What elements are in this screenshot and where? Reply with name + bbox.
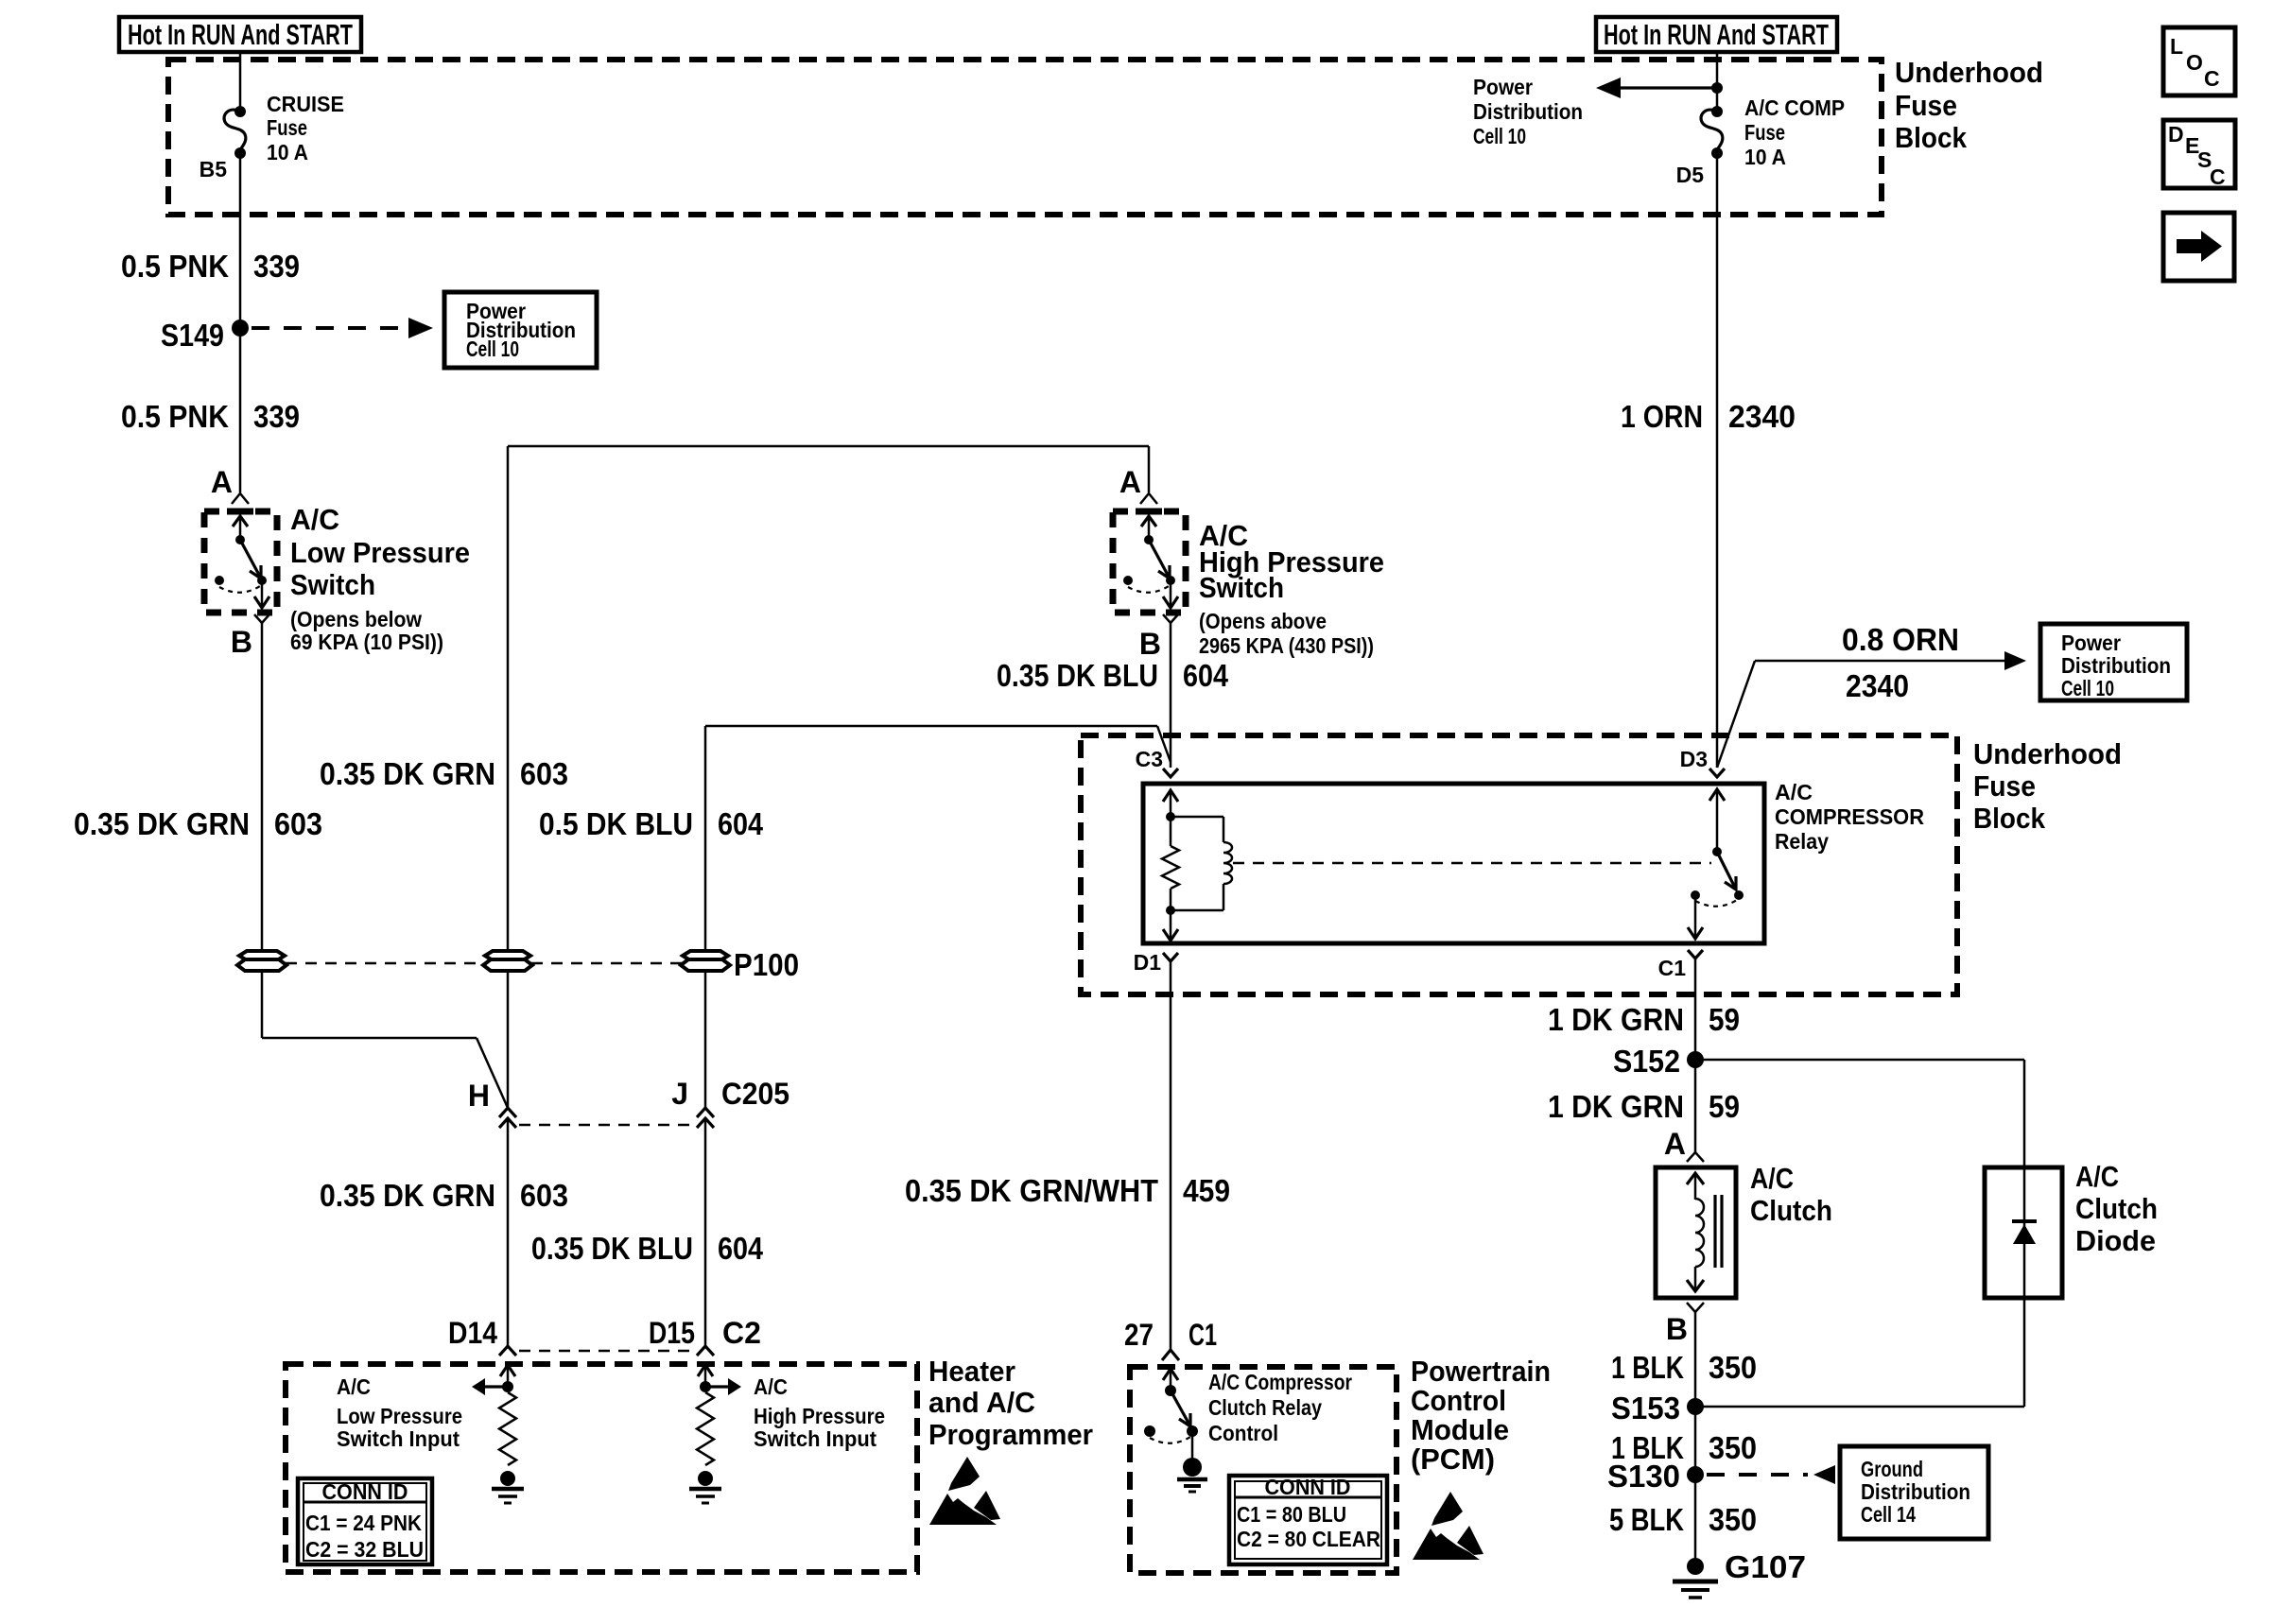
svg-text:2340: 2340 <box>1846 668 1909 703</box>
wire: relay C1 down to A/C clutch (1 DK GRN 59) <box>1694 959 1697 1152</box>
LP switch pin A connector chevron <box>232 493 249 504</box>
svg-text:603: 603 <box>520 1178 568 1213</box>
pin D15 connector chevron <box>697 1346 714 1356</box>
svg-text:A/C COMP: A/C COMP <box>1744 95 1845 120</box>
wire: J down to D15/C2 (0.35 DK BLU 604) <box>704 1118 707 1346</box>
pass-through grommet P100 dashed link line <box>286 962 484 965</box>
pin 27 connector chevron <box>1162 1350 1179 1360</box>
svg-text:B: B <box>1666 1312 1688 1346</box>
svg-text:Clutch: Clutch <box>1750 1194 1832 1227</box>
diode symbol <box>2012 1219 2037 1223</box>
PCM driver switch arm <box>1171 1391 1189 1425</box>
svg-text:Clutch Relay: Clutch Relay <box>1208 1395 1322 1420</box>
svg-text:D1: D1 <box>1134 950 1162 975</box>
svg-text:(Opens above: (Opens above <box>1199 609 1327 633</box>
svg-text:0.35 DK BLU: 0.35 DK BLU <box>531 1231 693 1266</box>
LP switch pivot dot <box>235 535 245 544</box>
svg-text:C: C <box>2210 164 2226 189</box>
pin C3 connector chevron <box>1163 769 1178 777</box>
svg-text:0.8 ORN: 0.8 ORN <box>1842 622 1959 657</box>
reference box Power Distribution Cell 10 (left) <box>444 292 597 368</box>
svg-text:C3: C3 <box>1136 747 1163 771</box>
svg-text:Programmer: Programmer <box>928 1418 1093 1451</box>
svg-text:339: 339 <box>253 399 300 434</box>
svg-text:Switch: Switch <box>1199 571 1284 604</box>
svg-text:C2 = 80 CLEAR: C2 = 80 CLEAR <box>1237 1527 1380 1551</box>
svg-text:Powertrain: Powertrain <box>1411 1355 1551 1388</box>
svg-text:1 DK GRN: 1 DK GRN <box>1548 1089 1684 1124</box>
svg-text:L: L <box>2170 34 2183 59</box>
programmer LP pull-up resistor <box>499 1392 516 1465</box>
svg-text:Switch Input: Switch Input <box>754 1426 876 1451</box>
svg-text:Block: Block <box>1973 802 2046 835</box>
svg-text:Control: Control <box>1411 1384 1506 1417</box>
svg-text:1 DK GRN: 1 DK GRN <box>1548 1002 1684 1037</box>
wire: jog right toward H pin <box>262 1037 477 1040</box>
PCM driver arrow up <box>1170 1371 1172 1389</box>
LP switch moving contact arrow (up) <box>239 517 242 538</box>
svg-text:C2: C2 <box>722 1316 761 1350</box>
svg-text:H: H <box>468 1079 490 1113</box>
pin D1 connector chevron <box>1163 953 1178 961</box>
svg-text:C1 = 80 BLU: C1 = 80 BLU <box>1237 1502 1346 1527</box>
svg-text:Ground: Ground <box>1861 1457 1923 1481</box>
LP switch contact dots <box>257 576 267 585</box>
svg-text:Hot In RUN And START: Hot In RUN And START <box>1604 18 1829 51</box>
svg-text:Relay: Relay <box>1775 829 1829 854</box>
svg-text:B5: B5 <box>200 157 228 181</box>
svg-text:(Opens below: (Opens below <box>290 607 422 631</box>
wire: 603 branch horizontal at top <box>508 445 1149 448</box>
programmer HP input junction dot <box>700 1381 711 1392</box>
svg-text:D5: D5 <box>1676 163 1705 187</box>
svg-text:350: 350 <box>1709 1350 1757 1385</box>
dashed reference arrow to Ground Distribution <box>1707 1473 1808 1477</box>
wire through diode box <box>2023 1167 2026 1298</box>
programmer LP internal ground <box>500 1471 515 1486</box>
svg-text:604: 604 <box>718 1231 764 1266</box>
svg-text:C: C <box>2204 66 2220 91</box>
svg-text:COMPRESSOR: COMPRESSOR <box>1775 804 1924 829</box>
ground G107 symbol <box>1687 1558 1704 1575</box>
svg-text:69 KPA (10 PSI)): 69 KPA (10 PSI)) <box>290 630 443 654</box>
A/C High Pressure Switch dashed box <box>1113 511 1186 613</box>
relay suppression resistor <box>1170 817 1172 846</box>
splice S130 junction dot <box>1687 1466 1704 1483</box>
svg-text:A/C: A/C <box>1775 780 1813 804</box>
relay actuation dashed line <box>1233 862 1711 865</box>
svg-text:0.35 DK GRN: 0.35 DK GRN <box>74 806 250 841</box>
svg-text:Underhood: Underhood <box>1973 737 2122 770</box>
power feed box "Hot In RUN And START" (right) <box>1596 17 1837 52</box>
svg-text:CRUISE: CRUISE <box>267 92 344 116</box>
svg-text:339: 339 <box>253 249 300 284</box>
svg-text:0.35 DK GRN/WHT: 0.35 DK GRN/WHT <box>905 1173 1158 1208</box>
A/C COMPRESSOR Relay solid box <box>1143 784 1764 943</box>
HP switch output arrow down <box>1170 582 1172 606</box>
svg-text:Module: Module <box>1411 1413 1509 1446</box>
svg-text:Cell 10: Cell 10 <box>1473 124 1526 148</box>
LP switch throw dashed arc <box>219 586 260 593</box>
svg-text:Switch: Switch <box>290 568 375 601</box>
HP switch pin B connector chevron <box>1163 614 1178 623</box>
relay switch contact dots <box>1734 890 1744 900</box>
clutch coil bumps <box>1695 1199 1704 1267</box>
wire: relay D1 down to PCM pin 27 (0.35 DK GRN/WHT 459) <box>1170 961 1172 1350</box>
wire: 604 vertical branch down to J <box>704 726 707 1108</box>
svg-text:C1: C1 <box>1189 1318 1217 1352</box>
svg-text:604: 604 <box>1183 658 1229 693</box>
relay coil output arrow down to D1 <box>1170 910 1172 939</box>
svg-text:10 A: 10 A <box>267 140 308 164</box>
svg-text:Underhood: Underhood <box>1895 56 2043 89</box>
relay coil bottom junction dot <box>1166 906 1175 915</box>
svg-text:G107: G107 <box>1725 1549 1806 1584</box>
svg-text:Fuse: Fuse <box>1895 89 1957 122</box>
svg-text:C2 = 32 BLU: C2 = 32 BLU <box>305 1537 424 1562</box>
svg-text:J: J <box>671 1077 688 1111</box>
svg-text:Heater: Heater <box>928 1355 1015 1388</box>
svg-text:0.35 DK GRN: 0.35 DK GRN <box>320 756 495 791</box>
wire: LP switch B down (0.35 DK GRN 603) <box>261 623 264 1038</box>
svg-text:Block: Block <box>1895 121 1968 154</box>
wire: clutch B down to G107 (1 BLK 350) <box>1694 1312 1697 1566</box>
svg-text:0.5 PNK: 0.5 PNK <box>121 249 229 284</box>
ESD sensitivity symbol (programmer) <box>929 1457 1000 1525</box>
LOC legend box <box>2163 27 2235 95</box>
svg-text:Control: Control <box>1208 1421 1278 1445</box>
svg-text:S130: S130 <box>1607 1459 1680 1494</box>
svg-text:Low Pressure: Low Pressure <box>337 1404 462 1428</box>
ESD sensitivity symbol (PCM) <box>1413 1492 1484 1560</box>
svg-text:A: A <box>1119 465 1141 499</box>
PCM driver throw dashed arc <box>1150 1437 1190 1443</box>
svg-text:A/C: A/C <box>754 1374 788 1399</box>
svg-text:0.35 DK GRN: 0.35 DK GRN <box>320 1178 495 1213</box>
relay switch arm <box>1717 852 1735 888</box>
svg-text:59: 59 <box>1709 1089 1740 1124</box>
svg-text:5 BLK: 5 BLK <box>1609 1502 1684 1537</box>
relay coil input arrow up <box>1170 792 1172 817</box>
svg-text:350: 350 <box>1709 1502 1757 1537</box>
underhood fuse block (relay) dashed outline <box>1081 735 1957 994</box>
svg-text:P100: P100 <box>734 947 799 982</box>
splice S149 junction dot <box>232 320 249 337</box>
svg-text:S153: S153 <box>1611 1391 1680 1425</box>
svg-text:S149: S149 <box>161 318 224 353</box>
svg-text:10 A: 10 A <box>1744 145 1786 169</box>
HP switch pin A connector chevron <box>1140 493 1157 504</box>
svg-text:1 BLK: 1 BLK <box>1611 1350 1684 1385</box>
clutch plate bars <box>1713 1195 1716 1268</box>
svg-text:0.5 DK BLU: 0.5 DK BLU <box>539 806 693 841</box>
svg-text:Low Pressure: Low Pressure <box>290 536 470 569</box>
svg-text:S152: S152 <box>1613 1044 1680 1079</box>
svg-text:A/C: A/C <box>2075 1160 2119 1193</box>
P100 grommet symbol on 604 wire <box>681 951 730 971</box>
LP switch arm with arrowhead <box>240 540 260 577</box>
svg-text:Diode: Diode <box>2075 1224 2156 1257</box>
Heater and A/C Programmer dashed box <box>286 1364 917 1572</box>
svg-text:and A/C: and A/C <box>928 1386 1035 1419</box>
HP switch throw dashed arc <box>1128 586 1169 593</box>
programmer HP input right arrow <box>705 1385 733 1388</box>
svg-text:Fuse: Fuse <box>1973 769 2036 803</box>
svg-text:1 ORN: 1 ORN <box>1621 399 1703 434</box>
HP switch contact dots <box>1166 576 1175 585</box>
PCM driver contact dots <box>1187 1425 1198 1437</box>
A/C Clutch box <box>1656 1167 1736 1298</box>
wire: H down to D14 (0.35 DK GRN 603) <box>507 1118 510 1346</box>
svg-text:59: 59 <box>1709 1002 1740 1037</box>
arrow to Power Distribution Cell 10 (pointing left) <box>1619 86 1717 89</box>
Powertrain Control Module dashed box <box>1130 1367 1397 1573</box>
wire: S152 branch to clutch diode <box>1695 1059 2024 1062</box>
wire: S153 branch to clutch diode <box>1695 1406 2024 1408</box>
LP switch output arrow down <box>261 582 264 606</box>
HP switch top terminal bar <box>1136 509 1162 515</box>
wire: HP switch B down to relay C3 (0.35 DK BLU 604) <box>1170 623 1172 768</box>
HP switch arm with arrowhead <box>1149 540 1169 577</box>
svg-text:C1 = 24 PNK: C1 = 24 PNK <box>305 1511 422 1535</box>
A/C Low Pressure Switch dashed box <box>204 511 277 613</box>
svg-text:Cell 10: Cell 10 <box>2061 676 2114 700</box>
CONN ID table (PCM) <box>1229 1476 1387 1564</box>
relay coil top junction dot <box>1166 812 1175 821</box>
svg-text:Clutch: Clutch <box>2075 1192 2158 1225</box>
svg-text:CONN ID: CONN ID <box>1265 1475 1351 1499</box>
HP switch moving contact arrow (up) <box>1148 517 1151 538</box>
wire: 604 diagonal join at C3 <box>1157 726 1171 762</box>
P100 grommet symbol on 603 branch wire <box>483 951 532 971</box>
svg-text:Hot In RUN And START: Hot In RUN And START <box>128 18 353 51</box>
connector link dashed line D14-D15 <box>519 1350 694 1353</box>
svg-text:Cell 14: Cell 14 <box>1861 1502 1916 1527</box>
LP switch pin B connector chevron <box>254 614 269 623</box>
svg-text:Distribution: Distribution <box>1861 1479 1970 1504</box>
splice S153 junction dot <box>1687 1398 1704 1415</box>
wire: 0.8 ORN 2340 branch diagonal <box>1717 661 1755 768</box>
svg-text:604: 604 <box>718 806 764 841</box>
wire: fuse B5 down to S149 and LP switch pin A (0.5 PNK 339) <box>239 153 242 492</box>
programmer HP pull-up resistor <box>697 1392 714 1465</box>
splice S152 junction dot <box>1687 1051 1704 1068</box>
svg-text:Power: Power <box>2061 631 2121 655</box>
wire: diagonal into H pin <box>477 1038 508 1108</box>
pin D3 connector chevron <box>1709 769 1725 777</box>
svg-text:Power: Power <box>1473 75 1533 99</box>
forward arrow legend box <box>2163 213 2234 281</box>
svg-text:2965 KPA (430 PSI)): 2965 KPA (430 PSI)) <box>1199 633 1374 658</box>
relay switch throw dashed arc <box>1695 900 1737 907</box>
wire: down to HP switch pin A <box>1148 446 1151 492</box>
programmer HP input arrow up <box>704 1367 707 1387</box>
svg-text:A/C Compressor: A/C Compressor <box>1208 1370 1352 1394</box>
programmer LP input left arrow <box>480 1385 508 1388</box>
svg-text:603: 603 <box>520 756 568 791</box>
svg-text:D3: D3 <box>1680 747 1708 771</box>
svg-text:B: B <box>1139 627 1161 661</box>
wire: fuse D5 down to relay D3 (1 ORN 2340) <box>1716 153 1719 768</box>
pin D14 connector chevron <box>499 1346 516 1356</box>
svg-text:C1: C1 <box>1658 956 1687 980</box>
fuse F1 CRUISE 10A symbol <box>234 106 246 117</box>
svg-text:CONN ID: CONN ID <box>322 1479 408 1504</box>
wire: Hot feed to CRUISE fuse <box>239 52 242 110</box>
relay common input arrow up <box>1716 791 1719 852</box>
svg-text:350: 350 <box>1709 1430 1757 1465</box>
wire: 604 horizontal branch <box>705 725 1157 728</box>
relay output arrow down to C1 <box>1694 895 1697 937</box>
svg-text:603: 603 <box>274 806 322 841</box>
PCM driver pivot dot <box>1165 1385 1176 1396</box>
PCM internal ground <box>1191 1433 1194 1460</box>
svg-text:Switch Input: Switch Input <box>337 1426 460 1451</box>
svg-text:0.5 PNK: 0.5 PNK <box>121 399 229 434</box>
svg-text:2340: 2340 <box>1728 399 1796 434</box>
relay coil branch <box>1171 816 1223 819</box>
svg-text:A/C: A/C <box>337 1374 371 1399</box>
wire: Hot feed to A/C COMP fuse <box>1716 52 1719 110</box>
wire: 0.8 ORN 2340 branch arrow to Power Distribution <box>1755 660 2006 663</box>
pin C1 connector chevron (relay) <box>1688 950 1703 959</box>
svg-text:High Pressure: High Pressure <box>754 1404 885 1428</box>
DESC legend box <box>2163 120 2235 188</box>
reference box Power Distribution Cell 10 (right) <box>2040 624 2187 700</box>
svg-text:Cell 10: Cell 10 <box>466 337 519 361</box>
LP switch top terminal bar <box>227 509 253 515</box>
underhood fuse block (top) dashed outline <box>168 60 1882 215</box>
svg-text:A: A <box>211 465 233 499</box>
power feed box "Hot In RUN And START" (left) <box>119 17 361 52</box>
programmer LP input arrow up <box>507 1367 510 1387</box>
svg-text:Fuse: Fuse <box>267 115 307 140</box>
connector C205 pin J chevrons <box>697 1108 714 1117</box>
dashed reference arrow from S149 to Power Distribution <box>252 326 407 330</box>
svg-text:Fuse: Fuse <box>1744 120 1785 145</box>
programmer LP input junction dot <box>502 1381 513 1392</box>
connector C205 pin H chevrons <box>499 1108 516 1117</box>
svg-text:Distribution: Distribution <box>1473 99 1583 124</box>
relay switch pivot dot <box>1712 847 1722 856</box>
junction dot to Power Distribution arrow <box>1711 82 1723 94</box>
fuse F2 A/C COMP 10A symbol <box>1711 106 1723 117</box>
clutch pin A connector chevron <box>1687 1152 1704 1162</box>
svg-text:A/C: A/C <box>1750 1162 1794 1195</box>
wire: 603 vertical branch down to H <box>507 446 510 1108</box>
svg-text:D15: D15 <box>649 1316 695 1350</box>
svg-text:27: 27 <box>1124 1318 1154 1352</box>
svg-text:C205: C205 <box>721 1077 789 1111</box>
connector C205 dashed link line <box>519 1124 694 1127</box>
CONN ID table (programmer) <box>298 1478 432 1564</box>
svg-text:A/C: A/C <box>290 503 339 536</box>
P100 grommet symbol on LP wire <box>237 951 286 971</box>
svg-text:O: O <box>2186 50 2203 75</box>
svg-text:B: B <box>231 625 252 659</box>
svg-text:459: 459 <box>1183 1173 1230 1208</box>
A/C Clutch Diode box <box>1985 1167 2062 1298</box>
svg-text:(PCM): (PCM) <box>1411 1443 1495 1476</box>
svg-text:0.35 DK BLU: 0.35 DK BLU <box>997 658 1158 693</box>
clutch plunger arrows <box>1694 1175 1697 1200</box>
svg-text:D14: D14 <box>448 1316 497 1350</box>
HP switch pivot dot <box>1144 535 1154 544</box>
reference box Ground Distribution Cell 14 <box>1840 1446 1988 1539</box>
programmer HP internal ground <box>698 1471 713 1486</box>
clutch pin B connector chevron <box>1687 1303 1704 1312</box>
svg-text:A: A <box>1664 1127 1686 1161</box>
svg-text:Distribution: Distribution <box>2061 653 2171 678</box>
svg-text:D: D <box>2168 122 2184 147</box>
